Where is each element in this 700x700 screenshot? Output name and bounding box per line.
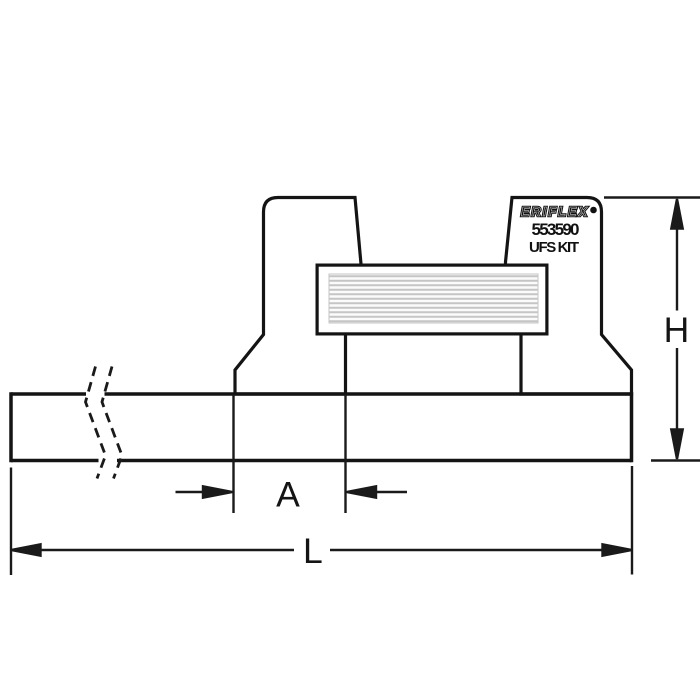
dimension L extension lines bbox=[11, 466, 632, 575]
ERIFLEX logo bbox=[521, 205, 597, 219]
right clamp post (body with label) bbox=[506, 198, 632, 395]
svg-text:553590: 553590 bbox=[532, 220, 580, 239]
ribbed pressure plate bbox=[317, 265, 547, 334]
dimension A arrows bbox=[176, 486, 408, 497]
dimension L line with arrows bbox=[11, 544, 632, 555]
break symbol bbox=[86, 367, 123, 479]
dimension H line with arrows bbox=[671, 199, 682, 459]
busbar bbox=[11, 392, 632, 462]
svg-text:L: L bbox=[303, 531, 323, 571]
dimension H extension lines bbox=[604, 198, 700, 461]
svg-text:H: H bbox=[664, 310, 690, 350]
dimension A extension lines bbox=[234, 394, 346, 513]
left clamp post bbox=[235, 198, 361, 395]
plate serrations bbox=[330, 276, 538, 321]
svg-text:A: A bbox=[276, 475, 300, 515]
svg-text:UFS KIT: UFS KIT bbox=[529, 239, 579, 256]
